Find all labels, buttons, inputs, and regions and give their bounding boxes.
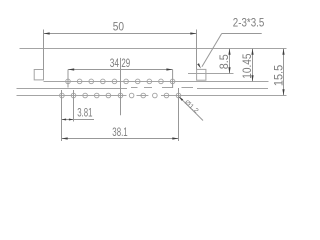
svg-text:29: 29: [121, 56, 130, 70]
mid edge line (solid left): [17, 88, 128, 90]
upper pin holes row: [66, 79, 71, 84]
svg-text:34: 34: [110, 56, 120, 70]
vertical centerline: [120, 58, 122, 115]
right mounting slot 3x3.5: [197, 69, 206, 80]
svg-text:10.45: 10.45: [240, 53, 254, 79]
dimension 34.29: extension/crosshair lines: [67, 70, 69, 88]
dimension 10.45: line and arrows: [252, 49, 254, 82]
hidden edge line at right slot: [188, 73, 234, 75]
svg-text:2-3*3.5: 2-3*3.5: [233, 15, 265, 29]
dimension 34.29: line and arrows: [68, 69, 173, 71]
bottom edge line segments: [17, 95, 127, 97]
dimension 50: line and arrows: [44, 33, 197, 35]
dimension 3.81: line and arrows: [62, 119, 95, 121]
svg-text:38.1: 38.1: [112, 125, 127, 139]
dimension 8.5: line and arrows: [229, 49, 231, 74]
mid edge line (solid right): [197, 88, 268, 90]
mid edge hidden dashes: [131, 87, 138, 89]
leader diameter 1.2: [179, 97, 203, 121]
top edge line: [20, 48, 287, 50]
dimension 38.1: extension line right: [178, 88, 180, 141]
left mounting slot 3x3.5: [34, 70, 43, 80]
leader 2-3*3.5: underline: [222, 33, 262, 35]
svg-text:8.5: 8.5: [217, 54, 231, 69]
svg-text:15.5: 15.5: [271, 64, 285, 86]
dimension 15.5: line and arrows: [283, 49, 285, 96]
dimension 3.81: extension lines: [61, 90, 63, 141]
svg-text:3.81: 3.81: [77, 105, 92, 119]
dimension 38.1: line and arrows: [62, 138, 179, 140]
dimension 50: extension lines: [43, 30, 45, 70]
svg-text:50: 50: [113, 20, 125, 34]
upper pin row line: [44, 81, 269, 83]
lower pin holes row: [60, 93, 65, 98]
leader 2-3*3.5: diagonal: [202, 34, 222, 67]
